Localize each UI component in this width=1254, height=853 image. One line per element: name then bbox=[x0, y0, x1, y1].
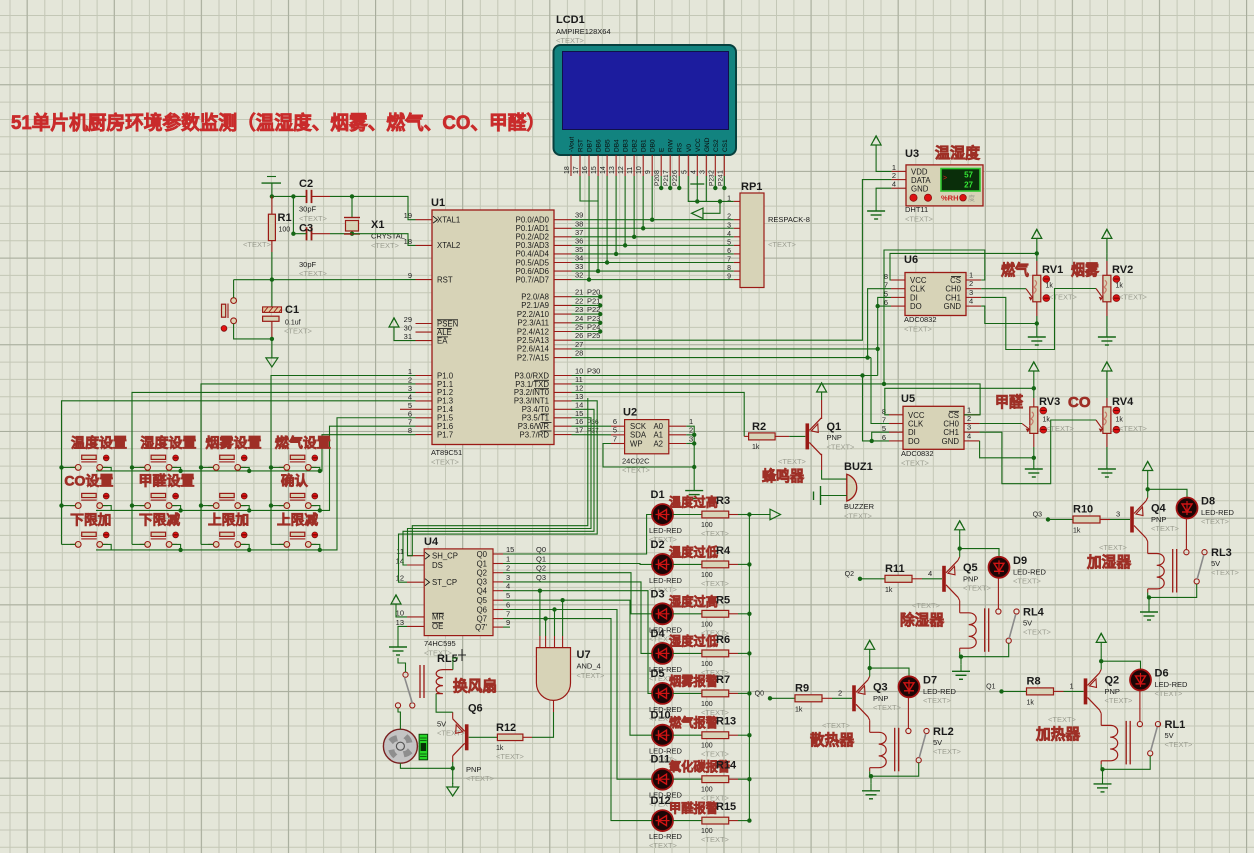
svg-text:RV3: RV3 bbox=[1039, 396, 1060, 408]
svg-text:PNP: PNP bbox=[873, 694, 888, 703]
svg-text:R11: R11 bbox=[885, 563, 905, 575]
svg-text:1: 1 bbox=[969, 271, 973, 280]
wire R13 to bus bbox=[738, 734, 749, 736]
svg-text:Q3: Q3 bbox=[536, 573, 546, 582]
RL4 common wire to ground node bbox=[961, 643, 1009, 656]
RL2 common wire to ground node bbox=[871, 763, 919, 776]
svg-text:U3: U3 bbox=[905, 148, 919, 160]
wire key r1c2 right to row bus bbox=[172, 467, 181, 471]
svg-text:32: 32 bbox=[575, 271, 583, 280]
fan motor bbox=[383, 729, 417, 763]
wire U1 P36 to U2 SCK bbox=[572, 425, 612, 427]
svg-text:<TEXT>: <TEXT> bbox=[822, 721, 851, 730]
svg-text:BUZZER: BUZZER bbox=[844, 502, 875, 511]
svg-text:<TEXT>: <TEXT> bbox=[1099, 543, 1128, 552]
svg-text:5V: 5V bbox=[933, 738, 942, 747]
svg-text:1k: 1k bbox=[1043, 417, 1051, 424]
wire U6 CLK riser bbox=[868, 289, 891, 358]
svg-text:上限加: 上限加 bbox=[208, 512, 249, 527]
wire motor top to RL5 switch bbox=[398, 708, 400, 729]
LED D12 bbox=[652, 810, 673, 831]
RST node junction bbox=[270, 277, 274, 281]
svg-text:RL5: RL5 bbox=[437, 653, 458, 665]
D8 cathode stub to contact bbox=[1185, 519, 1187, 550]
RL4 switch arm bbox=[1009, 614, 1016, 638]
svg-text:P2.7/A15: P2.7/A15 bbox=[517, 353, 550, 362]
svg-text:<TEXT>: <TEXT> bbox=[1119, 424, 1148, 433]
svg-text:100: 100 bbox=[279, 227, 291, 234]
wires P0 bus rows to RP1 pins 2-9 bbox=[572, 219, 734, 221]
svg-text:U4: U4 bbox=[424, 536, 439, 548]
svg-text:P2.2/A10: P2.2/A10 bbox=[517, 310, 550, 319]
DHT11 body bbox=[906, 165, 983, 206]
relay RL5 coil bbox=[436, 670, 453, 694]
wire U5 CH1 snake to RV4 wiper bbox=[980, 420, 1096, 484]
wire LCD V0 GND to node bbox=[688, 176, 706, 201]
svg-text:1k: 1k bbox=[885, 587, 893, 594]
svg-text:<TEXT>: <TEXT> bbox=[901, 459, 930, 468]
Q5 collector wire bbox=[958, 597, 960, 601]
LCD VCC power bar symbol bbox=[696, 176, 698, 184]
svg-text:3: 3 bbox=[969, 288, 973, 297]
svg-text:<TEXT>: <TEXT> bbox=[844, 512, 873, 521]
svg-text:7: 7 bbox=[613, 434, 617, 443]
wire U5 GND to RV3 bottom bbox=[980, 441, 1034, 458]
terminal arrow left of RP1 bbox=[703, 201, 720, 213]
LCD1 pin stubs bbox=[570, 155, 572, 176]
svg-text:Q0: Q0 bbox=[755, 690, 764, 697]
svg-text:DO: DO bbox=[908, 437, 920, 446]
relay RL1 coil bbox=[1101, 725, 1118, 760]
power arrow above RV3 bbox=[1033, 371, 1035, 380]
svg-text:26: 26 bbox=[575, 331, 583, 340]
U4 power arrow at MR bbox=[395, 604, 397, 610]
svg-text:GND: GND bbox=[704, 137, 711, 152]
svg-text:D7: D7 bbox=[923, 674, 937, 686]
svg-text:DB3: DB3 bbox=[623, 139, 630, 152]
button 下限加 bbox=[70, 543, 75, 545]
transistor Q4 PNP bbox=[1130, 507, 1134, 533]
ground RL1 bbox=[1102, 769, 1104, 777]
wire key r3c3 left bbox=[201, 543, 213, 545]
RL5 contact mark bbox=[458, 654, 466, 656]
LED D11 bbox=[652, 769, 673, 790]
svg-text:17: 17 bbox=[573, 166, 580, 174]
RL1 switch contacts bbox=[1137, 722, 1142, 727]
svg-text:<TEXT>: <TEXT> bbox=[1013, 576, 1042, 585]
LED D1 bbox=[652, 504, 673, 525]
LED D4 bbox=[652, 643, 673, 664]
wire U2 WP loop to A pins bbox=[603, 444, 694, 468]
svg-text:2: 2 bbox=[506, 564, 510, 573]
U6 pin stubs and numbers bbox=[891, 279, 905, 281]
svg-text:C3: C3 bbox=[299, 223, 313, 235]
svg-text:XTAL2: XTAL2 bbox=[437, 241, 460, 250]
svg-text:DB5: DB5 bbox=[605, 139, 612, 152]
svg-text:R14: R14 bbox=[716, 760, 737, 772]
svg-text:<TEXT>: <TEXT> bbox=[1049, 293, 1078, 302]
wire key r3c3 right to row bus bbox=[241, 544, 250, 550]
wire U4 Q3 to D4 bbox=[503, 582, 652, 654]
svg-text:WP: WP bbox=[630, 439, 643, 448]
power arrow above RV1 bbox=[1036, 238, 1038, 253]
wire U1 P37 to U2 SDA bbox=[572, 434, 612, 436]
net terminal Q2 bbox=[858, 577, 862, 581]
RL2 switch contacts bbox=[906, 728, 911, 733]
wire U4 Q4 to D5 bbox=[503, 591, 652, 694]
relay RL4 coil bbox=[960, 613, 977, 648]
RL1 coil return bbox=[1100, 761, 1102, 765]
Q3 emitter wire to power node bbox=[868, 676, 870, 680]
svg-text:DB0: DB0 bbox=[650, 139, 657, 152]
extra bus wire to U4 DS bbox=[407, 398, 588, 556]
wire U6 VCC rail to RV1 bbox=[890, 253, 1037, 280]
wire RL5 switch contact to ground net bbox=[398, 658, 406, 672]
svg-text:24C02C: 24C02C bbox=[622, 457, 650, 466]
svg-text:P30: P30 bbox=[587, 367, 600, 376]
svg-text:<TEXT>: <TEXT> bbox=[778, 457, 807, 466]
svg-text:P1.7: P1.7 bbox=[437, 430, 453, 439]
LED D7 bbox=[870, 668, 909, 676]
transistor Q1 PNP bbox=[806, 423, 810, 449]
svg-text:Q3: Q3 bbox=[1033, 512, 1042, 519]
svg-text:Q0: Q0 bbox=[477, 550, 488, 559]
svg-text:Q0: Q0 bbox=[536, 545, 546, 554]
svg-text:<TEXT>: <TEXT> bbox=[496, 752, 525, 761]
wire U4 Q7 to D12 bbox=[503, 619, 652, 821]
svg-text:1k: 1k bbox=[496, 745, 504, 752]
svg-text:<TEXT>: <TEXT> bbox=[768, 240, 797, 249]
Q5 emitter wire to power node bbox=[958, 557, 960, 561]
wire key r2c1 right to row bus bbox=[103, 506, 112, 511]
wire key r1c3 left bbox=[201, 466, 213, 468]
RL3 coil return bbox=[1147, 589, 1149, 593]
svg-text:<TEXT>: <TEXT> bbox=[431, 458, 460, 467]
wire R14 to bus bbox=[738, 778, 749, 780]
svg-text:R15: R15 bbox=[716, 801, 736, 813]
Q1 emitter wire and power arrow bbox=[821, 400, 823, 419]
wire R15 to bus bbox=[738, 820, 749, 822]
svg-text:AMPIRE128X64: AMPIRE128X64 bbox=[556, 27, 611, 36]
svg-text:25: 25 bbox=[575, 323, 583, 332]
wire button top to RST row bbox=[233, 280, 235, 298]
svg-text:U7: U7 bbox=[577, 649, 591, 661]
svg-text:30pF: 30pF bbox=[299, 205, 317, 214]
svg-text:PNP: PNP bbox=[1151, 515, 1166, 524]
net terminal Q0 bbox=[768, 696, 772, 700]
wire LCD RST jog bbox=[580, 176, 599, 201]
resistor R5 bbox=[673, 613, 702, 615]
svg-text:11: 11 bbox=[627, 167, 634, 174]
wire node to RP1 pin1 bbox=[688, 200, 734, 202]
ground RL4 bbox=[960, 657, 962, 665]
RL5 coil top wire bbox=[453, 658, 458, 670]
svg-text:1k: 1k bbox=[795, 706, 803, 713]
transistor Q6 PNP mirrored bbox=[465, 724, 469, 750]
wire to C2 left plate bbox=[272, 195, 307, 197]
button CO设置 bbox=[70, 505, 75, 507]
svg-text:1: 1 bbox=[1070, 681, 1074, 690]
svg-text:3: 3 bbox=[506, 573, 510, 582]
resistor R11 bbox=[860, 578, 885, 580]
wires U4 Q4-Q7 to U7 inputs bbox=[539, 591, 541, 636]
LED cathode bus bbox=[748, 515, 750, 821]
svg-text:2: 2 bbox=[708, 170, 715, 174]
resistor R2 bbox=[749, 433, 776, 440]
wire crystal node to XTAL1 bbox=[352, 196, 416, 219]
svg-text:4: 4 bbox=[928, 569, 932, 578]
wire P26 row to U6 DI DO riser bbox=[572, 348, 878, 350]
svg-text:16: 16 bbox=[582, 166, 589, 174]
svg-text:74HC595: 74HC595 bbox=[424, 639, 456, 648]
svg-text:12: 12 bbox=[618, 166, 625, 174]
net terminal Q3 bbox=[1046, 517, 1050, 521]
ground below U2 bbox=[693, 484, 695, 491]
bus output arrow terminal bbox=[747, 512, 751, 516]
svg-text:1k: 1k bbox=[1116, 417, 1124, 424]
svg-text:100: 100 bbox=[701, 828, 713, 835]
svg-text:DO: DO bbox=[910, 302, 922, 311]
wire R3 to bus bbox=[738, 514, 749, 516]
svg-text:DB7: DB7 bbox=[587, 139, 594, 152]
U1 pin names left bbox=[433, 216, 438, 223]
resistor R15 bbox=[673, 820, 702, 822]
svg-text:燃气报警: 燃气报警 bbox=[669, 715, 718, 730]
svg-text:P2.1/A9: P2.1/A9 bbox=[521, 301, 549, 310]
svg-text:DB6: DB6 bbox=[596, 139, 603, 152]
button 甲醛设置 bbox=[140, 505, 145, 507]
svg-text:D9: D9 bbox=[1013, 555, 1027, 567]
svg-text:R7: R7 bbox=[716, 674, 730, 686]
svg-text:17: 17 bbox=[575, 426, 583, 435]
shift register U4 body bbox=[424, 549, 493, 636]
svg-text:R2: R2 bbox=[752, 421, 766, 433]
svg-text:Q5: Q5 bbox=[477, 596, 488, 605]
svg-text:P20: P20 bbox=[654, 174, 661, 186]
wire key r2c2 right to row bus bbox=[172, 506, 181, 511]
svg-text:甲醛设置: 甲醛设置 bbox=[139, 473, 196, 489]
svg-text:LED-RED: LED-RED bbox=[1013, 567, 1047, 576]
Q2 emitter wire to power node bbox=[1100, 669, 1102, 673]
svg-text:<TEXT>: <TEXT> bbox=[701, 579, 730, 588]
svg-text:RP1: RP1 bbox=[741, 181, 762, 193]
pot RV1 bbox=[1036, 253, 1038, 261]
ground RL2 bbox=[870, 776, 872, 784]
LCD1 display body bbox=[554, 45, 737, 155]
svg-text:RST: RST bbox=[578, 139, 585, 152]
RL3 switch arm bbox=[1197, 555, 1204, 579]
svg-text:蜂鸣器: 蜂鸣器 bbox=[762, 467, 805, 485]
svg-text:CO: CO bbox=[1068, 394, 1091, 411]
svg-text:OE: OE bbox=[432, 622, 443, 631]
svg-text:<TEXT>: <TEXT> bbox=[1023, 627, 1052, 636]
wire R4 to bus bbox=[738, 563, 749, 565]
wire U2 A0 A1 A2 tie bbox=[686, 426, 694, 483]
net terminal Q1 bbox=[999, 689, 1003, 693]
svg-text:GND: GND bbox=[944, 302, 962, 311]
button 燃气设置 bbox=[279, 466, 284, 468]
svg-text:CS: CS bbox=[948, 411, 959, 420]
wire U5 CH0 to RV3 wiper bbox=[980, 423, 1022, 425]
svg-text:D6: D6 bbox=[1155, 667, 1169, 679]
svg-text:P20: P20 bbox=[587, 288, 600, 297]
wire U4 Q1 to D2 bbox=[503, 563, 652, 566]
DHT11 GND wire and ground bbox=[876, 188, 891, 204]
svg-text:<TEXT>: <TEXT> bbox=[1048, 715, 1077, 724]
resistor R12 bbox=[469, 736, 498, 738]
svg-text:D12: D12 bbox=[651, 795, 671, 807]
RL4 coil return bbox=[959, 648, 961, 652]
wire P27 row to ADC clock risers bbox=[572, 357, 872, 359]
wire to Q2 base bbox=[1064, 690, 1084, 692]
svg-text:ST_CP: ST_CP bbox=[432, 578, 457, 587]
svg-text:100: 100 bbox=[701, 572, 713, 579]
svg-text:R10: R10 bbox=[1073, 504, 1093, 516]
svg-text:度: 度 bbox=[968, 194, 975, 203]
svg-text:9: 9 bbox=[408, 271, 412, 280]
wire U4 Q5 to D10 bbox=[503, 600, 652, 735]
RL2 switch arm bbox=[919, 734, 926, 758]
svg-text:RV4: RV4 bbox=[1112, 396, 1134, 408]
svg-text:下限加: 下限加 bbox=[70, 512, 111, 527]
power arrow above RV2 bbox=[1106, 238, 1108, 253]
resistor R9 bbox=[770, 697, 795, 699]
RL3 common wire to ground node bbox=[1149, 584, 1197, 597]
LED D8 bbox=[1148, 489, 1187, 497]
svg-text:4: 4 bbox=[892, 180, 896, 189]
pot RV4 bbox=[1106, 380, 1108, 398]
wire to Q4 base bbox=[1110, 519, 1130, 521]
svg-text:10: 10 bbox=[636, 166, 643, 174]
svg-text:P23: P23 bbox=[587, 314, 600, 323]
RP1 resistor pack body bbox=[740, 193, 764, 288]
RL5 switch contacts bbox=[403, 672, 408, 677]
svg-text:<TEXT>: <TEXT> bbox=[243, 240, 272, 249]
svg-text:<TEXT>: <TEXT> bbox=[1201, 517, 1230, 526]
wire key r2c4 left bbox=[271, 505, 284, 507]
svg-text:LED-RED: LED-RED bbox=[649, 832, 683, 841]
svg-text:<TEXT>: <TEXT> bbox=[933, 747, 962, 756]
svg-text:3: 3 bbox=[699, 170, 706, 174]
svg-text:P24: P24 bbox=[587, 323, 600, 332]
svg-text:9: 9 bbox=[506, 618, 510, 627]
svg-text:Q2: Q2 bbox=[1105, 674, 1120, 686]
svg-text:2: 2 bbox=[838, 688, 842, 697]
wire R7 to bus bbox=[738, 692, 749, 694]
svg-text:VCC: VCC bbox=[908, 411, 925, 420]
svg-text:Q2: Q2 bbox=[536, 564, 546, 573]
wire U6 CH1 snake to RV2 wiper bbox=[981, 289, 1096, 350]
svg-text:<TEXT>: <TEXT> bbox=[466, 774, 495, 783]
svg-text:RS: RS bbox=[677, 142, 684, 152]
wire key r2c2 left bbox=[132, 505, 145, 507]
svg-text:RL2: RL2 bbox=[933, 726, 954, 738]
svg-text:<TEXT>: <TEXT> bbox=[1151, 524, 1180, 533]
and gate U7 body bbox=[536, 648, 570, 701]
svg-text:A2: A2 bbox=[653, 439, 663, 448]
wire key r1c2 left bbox=[132, 466, 145, 468]
svg-text:<TEXT>: <TEXT> bbox=[827, 443, 856, 452]
wire key r1c3 right to row bus bbox=[241, 467, 250, 471]
button key row2 col3 bbox=[208, 505, 213, 507]
U7 output stub and wire to R12 bbox=[553, 700, 555, 712]
svg-text:5V: 5V bbox=[1211, 559, 1220, 568]
svg-text:U5: U5 bbox=[901, 393, 915, 405]
svg-text:<TEXT>: <TEXT> bbox=[701, 835, 730, 844]
svg-text:RL4: RL4 bbox=[1023, 606, 1045, 618]
svg-text:<TEXT>: <TEXT> bbox=[905, 215, 934, 224]
reset ground node bbox=[270, 337, 274, 341]
wire U6 DI DO tie and riser to P30 bbox=[878, 297, 891, 375]
svg-text:温度设置: 温度设置 bbox=[71, 434, 128, 450]
svg-text:%RH: %RH bbox=[941, 194, 959, 203]
reset ground triangle bbox=[271, 339, 273, 354]
wire key r3c1 left bbox=[62, 543, 76, 545]
LED D9 bbox=[960, 549, 999, 557]
wire U5 DI DO riser bbox=[877, 375, 879, 377]
svg-text:VCC: VCC bbox=[695, 138, 702, 152]
EA power arrow bbox=[393, 327, 395, 335]
resistor R10 bbox=[1048, 519, 1073, 521]
svg-text:24: 24 bbox=[575, 314, 583, 323]
svg-text:R8: R8 bbox=[1027, 675, 1041, 687]
wire key r1c4 left bbox=[271, 466, 284, 468]
svg-text:R4: R4 bbox=[716, 545, 731, 557]
Q1 collector wire to buzzer bbox=[821, 454, 823, 470]
relay RL3 coil bbox=[1148, 554, 1165, 589]
svg-text:C2: C2 bbox=[299, 178, 313, 190]
eeprom U2 body bbox=[625, 420, 669, 454]
svg-text:100: 100 bbox=[701, 661, 713, 668]
LED D10 bbox=[652, 725, 673, 746]
reset button bbox=[231, 298, 237, 304]
button 上限减 bbox=[279, 543, 284, 545]
svg-text:D1: D1 bbox=[651, 489, 665, 501]
svg-text:RESPACK-8: RESPACK-8 bbox=[768, 215, 810, 224]
fan ground triangle bbox=[452, 768, 454, 784]
svg-text:P22: P22 bbox=[672, 174, 679, 186]
svg-text:D5: D5 bbox=[651, 668, 665, 680]
wire key r3c4 left bbox=[271, 543, 284, 545]
U7 input stubs bbox=[539, 636, 541, 648]
svg-text:51单片机厨房环境参数监测（温湿度、烟雾、燃气、CO、甲醛）: 51单片机厨房环境参数监测（温湿度、烟雾、燃气、CO、甲醛） bbox=[11, 111, 545, 134]
wire key r2c4 right to row bus bbox=[311, 506, 320, 511]
DHT11 pin stubs and numbers bbox=[891, 170, 906, 172]
svg-text:R6: R6 bbox=[716, 634, 730, 646]
svg-text:ADC0832: ADC0832 bbox=[904, 315, 937, 324]
LED D2 bbox=[652, 554, 673, 575]
svg-text:温度过低: 温度过低 bbox=[669, 544, 718, 559]
power arrow Q5 bbox=[959, 535, 961, 549]
wire U4 Q2 to D3 bbox=[503, 573, 652, 614]
transistor Q3 PNP bbox=[852, 685, 856, 711]
svg-text:100: 100 bbox=[701, 621, 713, 628]
svg-text:7: 7 bbox=[663, 170, 670, 174]
svg-text:<TEXT>: <TEXT> bbox=[649, 841, 678, 850]
RL2 coil return bbox=[869, 768, 871, 772]
button 确认 bbox=[279, 505, 284, 507]
svg-text:E: E bbox=[659, 147, 666, 152]
svg-text:3: 3 bbox=[967, 423, 971, 432]
U1 P1.4 stub mark bbox=[400, 408, 416, 410]
svg-text:MR: MR bbox=[432, 613, 444, 622]
svg-text:P22: P22 bbox=[587, 305, 600, 314]
svg-text:下限减: 下限减 bbox=[139, 511, 181, 527]
ground RL3 bbox=[1148, 597, 1150, 605]
svg-text:Q2: Q2 bbox=[845, 571, 854, 578]
svg-text:VCC: VCC bbox=[910, 276, 927, 285]
svg-text:CS1: CS1 bbox=[722, 139, 729, 152]
